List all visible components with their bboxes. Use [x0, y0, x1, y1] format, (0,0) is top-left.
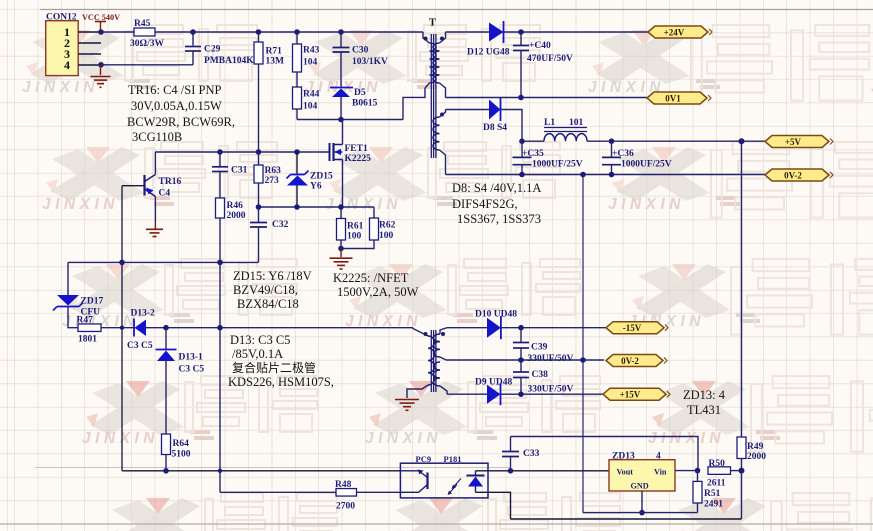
feedback transformer polarity dots — [424, 332, 428, 336]
node C35 bottom — [519, 172, 525, 178]
svg-text:R62: R62 — [379, 221, 396, 231]
svg-text:JINXIN: JINXIN — [22, 79, 99, 96]
svg-text:R44: R44 — [303, 90, 320, 100]
diode D13-1 — [165, 328, 167, 350]
capacitor C38 — [520, 360, 522, 372]
svg-text:TR16: C4 /SI PNP: TR16: C4 /SI PNP — [128, 83, 221, 97]
svg-text:0V1: 0V1 — [665, 93, 681, 103]
capacitor C40 — [520, 32, 522, 45]
svg-text:3CG110B: 3CG110B — [132, 130, 182, 144]
wire opto emitter out — [476, 492, 511, 519]
svg-text:+5V: +5V — [785, 137, 802, 147]
port 0V1 — [647, 92, 707, 104]
resistor R51 — [697, 471, 699, 482]
feedback transformer primary winding — [412, 328, 414, 329]
inductor L1 — [544, 134, 587, 142]
node R71 top — [256, 29, 262, 35]
wire R64 bottom — [165, 455, 167, 471]
node pin4 junction — [98, 62, 104, 68]
svg-text:2000: 2000 — [227, 211, 246, 221]
transistor TR16 — [143, 175, 145, 196]
svg-text:1SS367, 1SS373: 1SS367, 1SS373 — [457, 212, 541, 226]
svg-text:FET1: FET1 — [345, 144, 368, 154]
node R50 R49 junction — [739, 468, 745, 474]
diode D8 — [489, 100, 501, 120]
node C38 bottom — [518, 391, 524, 397]
svg-text:13M: 13M — [266, 57, 285, 67]
svg-text:104: 104 — [303, 102, 318, 112]
svg-text:D9 UD48: D9 UD48 — [475, 378, 512, 388]
capacitor C32 — [258, 183, 260, 222]
svg-text:复合贴片二极管: 复合贴片二极管 — [232, 360, 316, 375]
node C31 top — [217, 149, 223, 155]
resistor R44 — [296, 72, 298, 87]
port +24V — [648, 26, 708, 38]
feedback transformer secondary lower — [434, 362, 441, 386]
resistor R62 — [373, 207, 375, 218]
diode D5 transil — [340, 52, 342, 87]
wire step to primary bottom — [403, 88, 425, 120]
svg-text:ZD15: ZD15 — [310, 172, 333, 182]
svg-text:+C35: +C35 — [522, 149, 544, 159]
svg-text:R43: R43 — [303, 46, 320, 56]
svg-text:Vout: Vout — [617, 468, 634, 477]
svg-text:JINXIN: JINXIN — [42, 196, 119, 213]
ground at R61 — [340, 249, 342, 258]
wire source rail — [259, 206, 375, 208]
wire to D9 — [447, 393, 487, 395]
svg-text:R47: R47 — [77, 316, 94, 326]
svg-text:CON12: CON12 — [46, 12, 77, 22]
pin 3 — [78, 53, 101, 55]
diode D13-2 — [133, 319, 135, 337]
diode D10 — [487, 318, 501, 338]
svg-text:R61: R61 — [347, 222, 364, 232]
svg-text:2000: 2000 — [747, 452, 766, 462]
wire R44 bottom — [296, 109, 298, 120]
resistor R63 — [258, 152, 260, 165]
svg-text:B0615: B0615 — [352, 99, 378, 109]
node R63 top junction — [256, 149, 262, 155]
svg-text:470UF/50V: 470UF/50V — [527, 54, 573, 64]
svg-text:100: 100 — [347, 232, 362, 242]
transformer T core — [430, 34, 432, 158]
svg-text:100: 100 — [379, 231, 394, 241]
wire C32 bottom — [258, 227, 260, 262]
svg-text:0V-2: 0V-2 — [784, 170, 802, 180]
svg-text:R50: R50 — [709, 459, 726, 469]
svg-text:D13-2: D13-2 — [131, 309, 156, 319]
wire D9 to +15V port — [501, 393, 604, 395]
svg-text:TR16: TR16 — [159, 177, 182, 187]
optocoupler PC9 P181 — [400, 463, 488, 498]
wire snubber bottom rail — [297, 119, 403, 121]
resistor R45 — [134, 28, 155, 36]
node ZD15 top — [294, 149, 300, 155]
svg-text:JINXIN: JINXIN — [608, 196, 685, 213]
sheet divider line — [35, 467, 510, 469]
port +15V — [603, 388, 666, 400]
svg-text:D12 UG48: D12 UG48 — [467, 48, 510, 58]
transistor FET1 K2225 — [329, 143, 331, 161]
resistor R61 — [340, 207, 342, 219]
svg-text:K2225: K2225 — [345, 154, 372, 164]
wire FET source — [342, 160, 344, 208]
sheet border line top — [40, 9, 873, 11]
wire TR16 collector — [154, 152, 156, 175]
wire opto feedback rail — [122, 470, 400, 472]
node R48 branch — [218, 469, 222, 473]
transformer T secondary winding upper — [440, 32, 446, 43]
svg-text:D13: C3 C5: D13: C3 C5 — [230, 333, 290, 347]
node C40 bottom — [518, 95, 524, 101]
node ZD15 bottom — [294, 204, 300, 210]
port +5V — [765, 136, 829, 148]
port -15V — [606, 322, 664, 334]
svg-text:D13-1: D13-1 — [179, 353, 204, 363]
node C29 top — [190, 29, 196, 35]
feedback transformer secondary upper — [440, 328, 447, 334]
wire R48 to opto — [357, 491, 401, 493]
wire bias rail — [68, 261, 259, 263]
node bias-column junction — [119, 260, 125, 266]
wire bottom rail — [511, 518, 742, 520]
svg-text:VCC 540V: VCC 540V — [82, 13, 120, 22]
svg-text:TL431: TL431 — [687, 403, 721, 417]
transformer T polarity dots — [424, 37, 428, 41]
pin 2 — [78, 42, 101, 44]
feedback transformer core — [430, 330, 432, 392]
svg-text:1500V,2A, 50W: 1500V,2A, 50W — [337, 285, 419, 299]
svg-text:5100: 5100 — [172, 450, 191, 460]
ground at TR16 — [154, 222, 156, 229]
svg-text:T: T — [429, 18, 436, 29]
capacitor C35 — [513, 156, 532, 158]
wire R61 R62 bottoms — [340, 240, 342, 249]
svg-text:D8: S4 /40V,1.1A: D8: S4 /40V,1.1A — [452, 181, 541, 195]
node C33 bottom — [508, 468, 514, 474]
capacitor C33 — [510, 437, 512, 452]
wire ZD17 to R47 — [68, 307, 78, 328]
node 0V-2 tie — [580, 172, 586, 178]
svg-text:JINXIN: JINXIN — [365, 430, 442, 447]
node R61 top — [338, 204, 344, 210]
svg-text:JINXIN: JINXIN — [325, 196, 402, 213]
wire top rail to transformer — [193, 31, 423, 33]
svg-text:KDS226, HSM107S,: KDS226, HSM107S, — [228, 375, 334, 389]
resistor R50 — [708, 467, 731, 475]
svg-text:30V,0.05A,0.15W: 30V,0.05A,0.15W — [131, 99, 222, 113]
wire D13 rail to transformer — [146, 327, 413, 329]
svg-text:R63: R63 — [265, 166, 282, 176]
diode D9 — [487, 385, 501, 404]
wire branch to R48 — [219, 471, 221, 493]
svg-text:/85V,0.1A: /85V,0.1A — [232, 347, 283, 361]
port 0V-2 upper — [765, 169, 829, 181]
svg-text:DIFS4FS2G,: DIFS4FS2G, — [452, 197, 518, 211]
svg-text:R48: R48 — [335, 480, 352, 490]
svg-text:ZD13: ZD13 — [612, 451, 635, 461]
wire R47 to D13-2 — [101, 327, 134, 329]
svg-text:C30: C30 — [352, 46, 369, 56]
svg-text:C38: C38 — [532, 370, 549, 380]
capacitor C29 — [192, 32, 194, 46]
svg-text:P181: P181 — [444, 454, 462, 464]
wire D12 to +24V port — [504, 31, 649, 33]
wire 0V-2 rail upper — [446, 174, 766, 176]
node C39 bottom — [518, 357, 524, 363]
svg-text:C3 C5: C3 C5 — [127, 341, 153, 351]
optocoupler LED — [467, 475, 485, 477]
wire D13-1 to R64 — [165, 361, 167, 434]
wire to inductor — [522, 140, 544, 142]
diode D12 — [489, 23, 504, 42]
node R46 column cross — [217, 325, 223, 331]
svg-text:R45: R45 — [134, 19, 151, 29]
svg-text:+15V: +15V — [620, 390, 641, 400]
capacitor C30 — [340, 32, 342, 47]
wire gate rail — [155, 151, 330, 153]
wire L1 to +5V port — [587, 140, 765, 142]
svg-text:330UF/50V: 330UF/50V — [528, 354, 574, 364]
svg-text:K2225: /NFET: K2225: /NFET — [333, 271, 409, 285]
resistor R64 — [162, 434, 171, 455]
wire R45 to C29 node — [155, 31, 193, 33]
node 0V-2 tie lower — [580, 357, 586, 363]
svg-text:2491: 2491 — [704, 500, 723, 510]
resistor R49 — [737, 437, 746, 459]
ground at CON12 — [100, 65, 102, 75]
transformer T primary winding — [423, 32, 430, 43]
svg-text:C3 C5: C3 C5 — [179, 365, 205, 375]
svg-text:R46: R46 — [227, 201, 244, 211]
svg-text:ZD15: Y6 /18V: ZD15: Y6 /18V — [233, 269, 312, 283]
svg-text:330UF/50V: 330UF/50V — [528, 385, 574, 395]
node source ground junction — [338, 246, 344, 252]
svg-text:+C40: +C40 — [529, 41, 551, 51]
wire FET drain — [342, 120, 344, 145]
svg-text:104: 104 — [303, 58, 318, 68]
svg-text:Vin: Vin — [654, 468, 667, 477]
svg-text:103/1KV: 103/1KV — [352, 57, 388, 67]
ground at feedback transformer — [395, 399, 419, 401]
node C32 junction — [256, 204, 262, 210]
svg-text:R51: R51 — [704, 489, 721, 499]
svg-text:D5: D5 — [354, 88, 366, 98]
wire 0V1 rail — [446, 97, 648, 99]
resistor R43 — [296, 32, 298, 44]
capacitor C36 — [602, 156, 621, 158]
resistor R71 — [258, 32, 260, 42]
pin 1 — [78, 31, 101, 33]
wire sense to bottom rail — [741, 471, 743, 519]
resistor R46 — [219, 172, 221, 199]
node C35 top — [519, 138, 525, 144]
wire opto collector out — [476, 470, 610, 472]
svg-text:R64: R64 — [173, 439, 190, 449]
pin ZD13 GND — [641, 491, 643, 513]
svg-text:C29: C29 — [204, 45, 221, 55]
svg-text:JINXIN: JINXIN — [648, 430, 725, 447]
wire +5V sense column — [741, 141, 743, 437]
svg-text:C39: C39 — [531, 343, 548, 353]
wire R71 to gate rail — [258, 64, 260, 152]
node C39 top — [518, 325, 524, 331]
wire TR16 emitter — [154, 197, 156, 223]
svg-text:PMBA104K: PMBA104K — [204, 56, 254, 66]
node C36 top — [609, 138, 615, 144]
svg-text:4: 4 — [64, 58, 70, 72]
connector CON12 — [46, 21, 78, 76]
svg-text:R49: R49 — [747, 442, 764, 452]
svg-text:2700: 2700 — [336, 502, 355, 512]
node VCC junction pin1 — [98, 29, 104, 35]
capacitor C31 — [219, 152, 221, 166]
wire 0V-2 vertical tie — [582, 175, 584, 513]
svg-text:D10 UD48: D10 UD48 — [475, 310, 517, 320]
wire VCC to R45 — [101, 31, 134, 33]
svg-text:C33: C33 — [523, 449, 540, 459]
pin ZD13 Vin — [675, 470, 698, 472]
node R46-column junction — [217, 260, 223, 266]
pin 4 — [78, 64, 101, 66]
sheet border line bottom — [0, 523, 873, 525]
wire to D10 — [447, 327, 487, 329]
feedback transformer center tap — [440, 357, 446, 360]
wire feedback column left — [121, 186, 123, 471]
svg-text:Y6: Y6 — [310, 182, 322, 192]
zener ZD17 — [67, 262, 69, 295]
transformer T secondary winding lower — [440, 110, 446, 118]
svg-text:+24V: +24V — [664, 27, 685, 37]
svg-text:R71: R71 — [266, 47, 283, 57]
svg-text:C32: C32 — [272, 220, 289, 230]
svg-text:1000UF/25V: 1000UF/25V — [621, 160, 672, 170]
resistor R48 — [336, 489, 357, 497]
node C40 top — [518, 29, 524, 35]
wire C33 top rail — [511, 437, 699, 471]
svg-text:1000UF/25V: 1000UF/25V — [532, 160, 583, 170]
node C36 bottom — [609, 172, 615, 178]
svg-text:+C36: +C36 — [612, 149, 634, 159]
wire 0V-2 mid rail — [446, 359, 604, 361]
node feedback cross — [120, 326, 124, 330]
port 0V-2 lower — [606, 355, 663, 367]
svg-text:PC9: PC9 — [416, 454, 432, 464]
svg-text:C4: C4 — [159, 189, 171, 199]
svg-text:-15V: -15V — [623, 323, 642, 333]
resistor R47 — [78, 324, 101, 332]
wire anode rail — [583, 512, 698, 514]
svg-text:ZD17: ZD17 — [81, 297, 104, 307]
svg-text:L1: L1 — [544, 118, 555, 128]
node C30 top — [338, 29, 344, 35]
svg-text:C31: C31 — [231, 166, 248, 176]
node GND rail junction — [639, 510, 645, 516]
svg-text:30Ω/3W: 30Ω/3W — [130, 39, 164, 49]
node +5V sense — [739, 138, 745, 144]
svg-text:2611: 2611 — [707, 479, 726, 489]
node R64 bottom — [163, 468, 169, 474]
wire secondary to D8 — [446, 109, 490, 111]
optocoupler light arrows — [453, 479, 462, 489]
node drain junction — [338, 117, 344, 123]
regulator ZD13 TL431 — [609, 460, 675, 491]
svg-text:101: 101 — [569, 118, 584, 128]
svg-text:BZV49/C18,: BZV49/C18, — [233, 283, 298, 297]
node D13-1 top — [163, 325, 169, 331]
svg-text:0V-2: 0V-2 — [621, 356, 639, 366]
wire D8 to L1 — [501, 110, 523, 142]
svg-text:GND: GND — [631, 482, 649, 491]
svg-text:4: 4 — [656, 451, 661, 461]
svg-text:BCW29R, BCW69R,: BCW29R, BCW69R, — [127, 115, 235, 129]
wire return pin4 — [101, 64, 193, 66]
svg-text:BZX84/C18: BZX84/C18 — [237, 297, 299, 311]
capacitor C39 — [520, 328, 522, 342]
svg-text:273: 273 — [265, 176, 280, 186]
wire D10 to -15V port — [501, 327, 606, 329]
svg-text:ZD13: 4: ZD13: 4 — [683, 388, 726, 402]
svg-text:D8 S4: D8 S4 — [483, 123, 507, 133]
svg-text:1801: 1801 — [78, 335, 97, 345]
node Vin junction — [695, 468, 701, 474]
wire secondary to D12 — [446, 31, 490, 33]
zener ZD15 — [296, 152, 298, 175]
wire TR16 base — [122, 185, 145, 187]
wire R46 bottom long column — [219, 218, 221, 471]
node R43 top — [294, 29, 300, 35]
svg-text:JINXIN: JINXIN — [82, 430, 159, 447]
